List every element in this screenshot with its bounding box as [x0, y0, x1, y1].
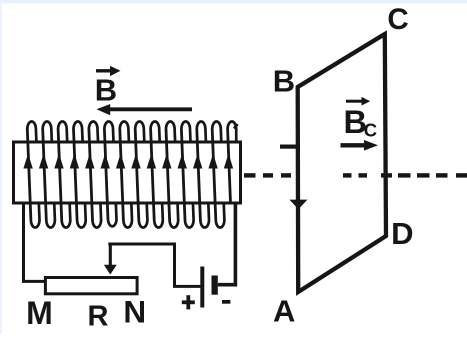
- svg-text:C: C: [387, 3, 408, 36]
- Bc field direction arrow (thick, right): [341, 140, 379, 151]
- coil current direction arrowheads (upward): [23, 154, 233, 169]
- battery negative plate (short thick): [212, 276, 218, 295]
- top screenshot border strip: [0, 0, 467, 4]
- wire from battery negative to solenoid right: [218, 203, 236, 285]
- wire from solenoid left to rheostat: [24, 202, 48, 281]
- coil front wires crossing core: [27, 129, 230, 220]
- svg-text:A: A: [273, 294, 295, 329]
- svg-text:N: N: [123, 294, 146, 330]
- current arrowhead on side AB (downward): [289, 200, 307, 210]
- rectangular loop ABCD: [298, 34, 386, 292]
- label Bc vector arrow: [346, 97, 370, 106]
- dashed axis line through solenoid and loop: [244, 173, 467, 177]
- svg-text:B: B: [273, 64, 295, 99]
- label B vector arrow (solenoid field symbol): [96, 66, 121, 76]
- svg-text:D: D: [391, 216, 413, 251]
- svg-text:R: R: [88, 300, 109, 332]
- field direction arrow pointing left above solenoid: [97, 104, 193, 115]
- battery positive plate (long): [200, 267, 204, 308]
- left screenshot border strip: [0, 0, 2, 334]
- wire from slider to battery positive: [108, 244, 201, 286]
- svg-text:B: B: [95, 72, 117, 107]
- solenoid coil turns (14 helix loops): [27, 121, 236, 227]
- minus sign label: [222, 300, 230, 304]
- coil wire end stub top right: [234, 124, 238, 128]
- rheostat slider arrow: [104, 244, 117, 275]
- svg-text:M: M: [26, 295, 53, 331]
- rheostat body MRN: [45, 278, 137, 294]
- plus sign label: [182, 295, 195, 309]
- solenoid core rectangle: [14, 142, 241, 203]
- tick on side AB: [280, 145, 298, 149]
- svg-text:C: C: [364, 120, 377, 141]
